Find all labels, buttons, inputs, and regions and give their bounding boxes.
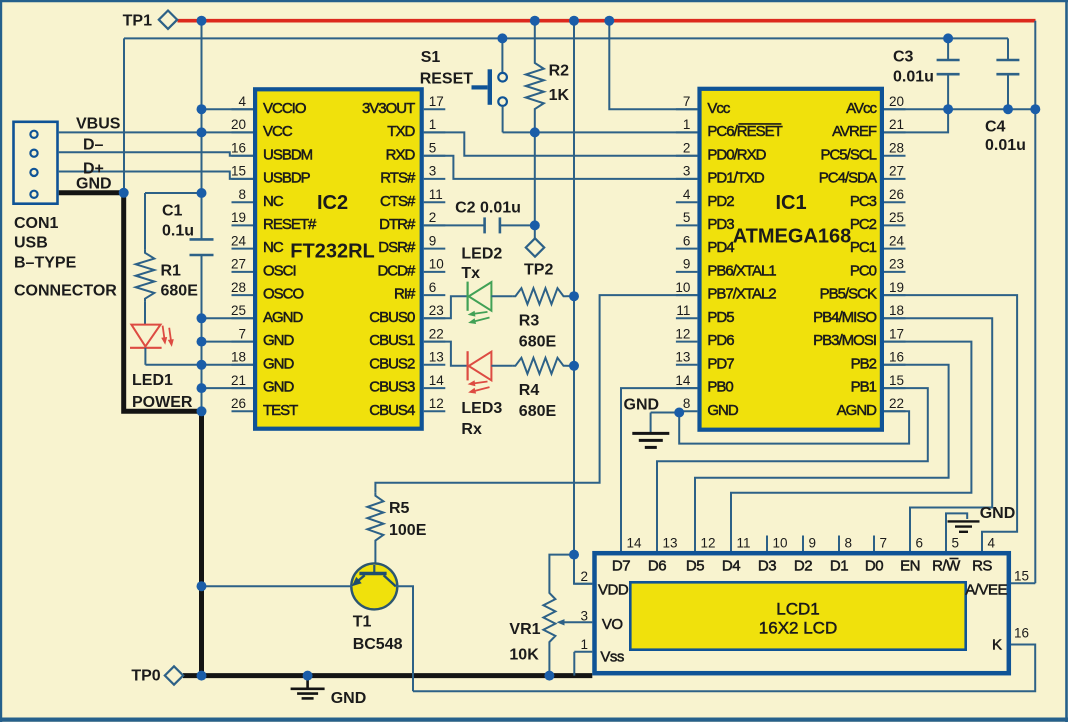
svg-text:D7: D7: [612, 558, 630, 575]
svg-text:TP2: TP2: [524, 262, 553, 279]
svg-text:25: 25: [231, 303, 246, 318]
svg-text:22: 22: [429, 326, 444, 341]
svg-text:R2: R2: [549, 63, 570, 80]
junction T1 emitter/gnd: [197, 581, 207, 591]
svg-text:ATMEGA168: ATMEGA168: [733, 226, 852, 248]
wire gnd side below C1: [201, 255, 203, 411]
svg-text:CBUS3: CBUS3: [369, 379, 415, 396]
wire R1 tap: [145, 192, 202, 194]
LED3 triangle: [469, 352, 492, 381]
resistor R5 100E: [367, 493, 383, 544]
svg-text:23: 23: [889, 257, 904, 272]
svg-text:10: 10: [773, 536, 788, 551]
test point TP2 diamond: [526, 238, 544, 256]
svg-text:2: 2: [580, 569, 588, 584]
wire CBUS1 to LED3: [424, 342, 468, 366]
svg-text:21: 21: [231, 373, 246, 388]
IC2 left pin 20 VCC: [232, 131, 254, 133]
svg-text:100E: 100E: [389, 522, 427, 539]
svg-text:14: 14: [675, 373, 691, 388]
svg-text:OSCO: OSCO: [263, 286, 304, 303]
junction GND7: [197, 337, 207, 347]
svg-text:6: 6: [683, 233, 691, 248]
svg-text:1: 1: [580, 637, 588, 652]
svg-text:7: 7: [880, 536, 888, 551]
IC2 right pin 2 DTR#: [424, 224, 446, 226]
svg-text:11: 11: [676, 303, 690, 318]
IC2 right pin 14 CBUS3: [424, 387, 446, 389]
LED3 arrows: [473, 382, 488, 384]
wire VCC rail x201: [201, 21, 203, 240]
svg-text:DSR#: DSR#: [378, 239, 416, 256]
svg-text:PB6/XTAL1: PB6/XTAL1: [707, 263, 776, 280]
potentiometer VR1 10K: [549, 555, 574, 590]
svg-text:680E: 680E: [161, 283, 199, 300]
junction x574/red: [569, 16, 579, 26]
svg-text:Vss: Vss: [600, 649, 624, 666]
svg-text:USBDP: USBDP: [263, 170, 311, 187]
IC2 right pin 6 RI#: [424, 294, 446, 296]
svg-text:R4: R4: [519, 382, 540, 399]
svg-text:PD5: PD5: [707, 309, 734, 326]
junction GND21: [197, 383, 207, 393]
svg-text:6: 6: [429, 280, 437, 295]
IC1 right pin 22 AGND: [884, 410, 906, 412]
junction C3/gnd-top: [943, 33, 953, 43]
IC2 right pin 3 RTS#: [424, 178, 446, 180]
svg-text:GND: GND: [707, 402, 739, 419]
wire PB5/SCK to LCD RS: [884, 295, 1017, 551]
IC2 left pin 15 USBDP: [232, 178, 254, 180]
svg-text:GND: GND: [980, 505, 1016, 522]
wire gnd rail to IC2 row11: [202, 364, 254, 366]
svg-text:T1: T1: [353, 613, 372, 630]
svg-text:13: 13: [429, 350, 444, 365]
svg-text:17: 17: [889, 326, 904, 341]
svg-text:D0: D0: [865, 558, 883, 575]
svg-text:27: 27: [231, 257, 246, 272]
LCD pin 9 D2: [802, 536, 804, 552]
IC2 right pin 11 CTS#: [424, 201, 446, 203]
svg-text:14: 14: [429, 373, 445, 388]
svg-text:PD3: PD3: [707, 216, 734, 233]
switch S1 RESET: [501, 38, 503, 72]
junction x609/red: [604, 16, 614, 26]
wire LED1 to gnd row: [144, 348, 146, 365]
svg-text:PC1: PC1: [850, 239, 877, 256]
resistor R3 680E: [512, 288, 566, 304]
test point TP1 diamond: [159, 11, 177, 29]
svg-text:AVREF: AVREF: [832, 123, 877, 140]
wire to IC2 pin4 VCCIO: [202, 108, 254, 110]
wire PB7/XTAL2 to R5: [375, 295, 697, 493]
LCD pin 14 D7: [620, 536, 622, 552]
LCD pin 2 VDD: [574, 583, 592, 585]
svg-text:15: 15: [1014, 569, 1029, 584]
junction VDD/VR1: [569, 550, 579, 560]
wire GND thick black bottom TP0 line: [183, 673, 592, 678]
svg-text:11: 11: [429, 187, 443, 202]
svg-text:D4: D4: [722, 558, 740, 575]
svg-text:3: 3: [429, 164, 437, 179]
svg-text:PB7/XTAL2: PB7/XTAL2: [707, 286, 776, 303]
IC2 right pin 13 CBUS2: [424, 364, 446, 366]
svg-text:CBUS2: CBUS2: [369, 355, 415, 372]
wire to TP2: [534, 225, 536, 238]
svg-text:C3: C3: [893, 49, 914, 66]
CON1 pin circle 4: [30, 191, 37, 198]
IC2 right pin 12 CBUS4: [424, 410, 446, 412]
LCD pin 11 D4: [730, 536, 732, 552]
svg-text:11: 11: [737, 536, 751, 551]
LCD pin 12 D5: [694, 536, 696, 552]
svg-text:PB1: PB1: [851, 379, 877, 396]
svg-text:D5: D5: [686, 558, 704, 575]
wire GND thick black vertical x201: [199, 411, 204, 675]
svg-text:15: 15: [889, 373, 904, 388]
svg-text:PD7: PD7: [707, 355, 734, 372]
svg-text:10K: 10K: [509, 647, 539, 664]
svg-text:19: 19: [889, 280, 904, 295]
svg-text:28: 28: [231, 280, 246, 295]
junction S1/gnd-top: [497, 33, 507, 43]
svg-text:21: 21: [889, 117, 904, 132]
junction gnd bottom left: [197, 671, 207, 681]
IC1 left pin 11 PD5: [676, 317, 698, 319]
svg-text:4: 4: [238, 94, 246, 109]
wire gnd-top horizontal y38: [124, 37, 1008, 39]
svg-text:PB4/MISO: PB4/MISO: [813, 309, 876, 326]
junction reset node: [530, 127, 540, 137]
svg-text:8: 8: [238, 187, 246, 202]
wire R2 bottom to C2 node: [534, 112, 536, 225]
svg-text:1: 1: [429, 117, 437, 132]
wire gnd rail to IC2 row10: [202, 341, 254, 343]
resistor R1 680E: [144, 193, 146, 250]
svg-text:C2 0.01u: C2 0.01u: [455, 200, 521, 217]
svg-text:5: 5: [429, 141, 437, 156]
svg-text:680E: 680E: [519, 333, 557, 350]
svg-text:10: 10: [675, 280, 690, 295]
svg-text:PD2: PD2: [707, 193, 734, 210]
svg-text:18: 18: [889, 303, 904, 318]
ground LCD pin5 R/W: [946, 513, 967, 551]
svg-text:Vcc: Vcc: [707, 100, 731, 117]
svg-text:A/VEE: A/VEE: [965, 582, 1007, 599]
wire D+ to pin15: [59, 172, 253, 179]
svg-text:19: 19: [231, 210, 246, 225]
IC2 right pin 1 TXD: [424, 131, 446, 133]
IC2 left pin 24 NC: [232, 248, 254, 250]
wire IC2 RXD to IC1 PD1/TXD: [424, 156, 698, 179]
resistor R4 680E: [512, 358, 566, 374]
wire AVcc line: [884, 108, 1035, 110]
svg-text:R3: R3: [519, 313, 540, 330]
svg-text:18: 18: [231, 350, 246, 365]
svg-text:NC: NC: [263, 193, 284, 210]
svg-text:16: 16: [889, 350, 904, 365]
svg-text:PD1/TXD: PD1/TXD: [707, 170, 765, 187]
IC2 right pin 10 DCD#: [424, 271, 446, 273]
wire gnd-top left drop x124: [123, 38, 125, 192]
svg-text:LED1: LED1: [132, 372, 173, 389]
IC1 left pin 12 PD6: [676, 341, 698, 343]
IC2 left pin 27 OSCI: [232, 271, 254, 273]
LCD pin 6 EN: [909, 536, 911, 552]
IC2 right pin 17 3V3OUT: [424, 108, 446, 110]
op-amp U1: IC2 FT232RL body: [255, 89, 422, 428]
IC2 left pin 19 RESET#: [232, 224, 254, 226]
svg-text:GND: GND: [76, 176, 112, 193]
IC1 left pin 14 PB0: [676, 387, 698, 389]
junction AVcc/right rail: [1030, 104, 1040, 114]
svg-text:CBUS0: CBUS0: [369, 309, 415, 326]
wire S1 to reset node: [502, 106, 504, 132]
svg-text:16: 16: [1014, 626, 1029, 641]
svg-text:GND: GND: [263, 355, 295, 372]
IC2 left pin 26 TEST: [232, 410, 254, 412]
svg-text:VDD: VDD: [598, 582, 629, 599]
wire LED3 anode to R4: [491, 365, 512, 367]
IC2 left pin 28 OSCO: [232, 294, 254, 296]
svg-text:10: 10: [429, 257, 444, 272]
capacitor C2 0.01u: [424, 224, 485, 226]
svg-text:DCD#: DCD#: [377, 263, 415, 280]
svg-text:CTS#: CTS#: [380, 193, 416, 210]
svg-text:8: 8: [683, 396, 691, 411]
wire PB2 to LCD D5: [695, 365, 949, 551]
svg-text:CBUS4: CBUS4: [369, 402, 415, 419]
LCD pin 8 D1: [838, 536, 840, 552]
svg-text:17: 17: [429, 94, 444, 109]
svg-text:DTR#: DTR#: [379, 216, 416, 233]
svg-text:9: 9: [429, 233, 437, 248]
svg-text:3: 3: [580, 608, 588, 623]
display LCD1 16X2 body: [595, 553, 1009, 673]
LCD pin 7 D0: [873, 536, 875, 552]
svg-text:POWER: POWER: [132, 394, 193, 411]
IC2 left pin 4 VCCIO: [232, 108, 254, 110]
IC2 left pin 25 AGND: [232, 317, 254, 319]
junction C4/AVcc: [1003, 104, 1013, 114]
IC2 left pin 21 GND: [232, 387, 254, 389]
junction rail/red: [197, 16, 207, 26]
svg-text:AGND: AGND: [263, 309, 304, 326]
svg-text:8: 8: [845, 536, 853, 551]
wire PB0 to LCD D7: [621, 388, 697, 551]
LCD pin 1 Vss: [574, 651, 592, 653]
svg-text:RXD: RXD: [386, 146, 416, 163]
svg-text:D6: D6: [648, 558, 666, 575]
wire reset node to IC1 PC6: [535, 131, 698, 133]
IC1 left pin 8 GND: [676, 410, 698, 412]
svg-text:15: 15: [231, 164, 246, 179]
LCD pin 5 R/W: [945, 536, 947, 552]
CON1 pin circle 3: [30, 169, 37, 176]
ground: [948, 521, 980, 531]
svg-text:PD4: PD4: [707, 239, 734, 256]
wire gnd rail to IC2 row12: [202, 387, 254, 389]
CON1 pin circle 1: [30, 131, 37, 138]
svg-text:VCC: VCC: [263, 123, 293, 140]
IC2 right pin 23 CBUS0: [424, 317, 446, 319]
IC1 right pin 18 PB4/MISO: [884, 317, 906, 319]
ground stem TP0 line: [306, 676, 309, 688]
IC1 right pin 21 AVREF: [884, 131, 906, 133]
svg-text:RESET: RESET: [420, 70, 474, 87]
svg-text:0.01u: 0.01u: [985, 137, 1026, 154]
svg-text:23: 23: [429, 303, 444, 318]
svg-text:12: 12: [701, 536, 716, 551]
VR1 wiper arrow: [563, 621, 593, 623]
IC1 right pin 17 PB3/MOSI: [884, 341, 906, 343]
svg-text:1: 1: [683, 117, 691, 132]
LCD pin 13 D6: [656, 536, 658, 552]
svg-text:22: 22: [889, 396, 904, 411]
svg-text:D–: D–: [83, 137, 104, 154]
svg-text:12: 12: [675, 326, 690, 341]
junction R1 tap: [197, 188, 207, 198]
svg-text:RTS#: RTS#: [380, 170, 416, 187]
svg-text:20: 20: [889, 94, 904, 109]
LED2 cathode bar: [467, 282, 469, 311]
wire LED2 anode to R3: [491, 295, 512, 297]
svg-text:R/W: R/W: [932, 558, 961, 575]
resistor R2 1K: [534, 21, 536, 60]
IC2 right pin 5 RXD: [424, 155, 446, 157]
svg-text:4: 4: [683, 187, 691, 202]
svg-text:PB5/SCK: PB5/SCK: [820, 286, 877, 303]
junction R2/red: [530, 16, 540, 26]
svg-text:B–TYPE: B–TYPE: [14, 255, 77, 272]
wire T1 collector down: [396, 586, 413, 691]
svg-text:28: 28: [889, 141, 904, 156]
svg-text:LED2: LED2: [461, 246, 502, 263]
IC1 right pin 23 PC0: [884, 271, 906, 273]
svg-text:PC4/SDA: PC4/SDA: [819, 170, 877, 187]
wire D- to pin16: [59, 152, 253, 155]
svg-text:PC3: PC3: [850, 193, 877, 210]
svg-text:C1: C1: [162, 203, 183, 220]
connector CON1 USB: [14, 122, 58, 204]
svg-text:9: 9: [809, 536, 817, 551]
svg-text:5: 5: [683, 210, 691, 225]
svg-text:9: 9: [683, 257, 691, 272]
IC1 left pin 13 PD7: [676, 364, 698, 366]
transistor T1 BC548: [351, 563, 397, 609]
LCD pin 10 D3: [766, 536, 768, 552]
svg-text:RS: RS: [972, 558, 992, 575]
wire VBUS to pin20: [59, 131, 253, 133]
svg-text:24: 24: [889, 233, 905, 248]
junction VBUS: [197, 127, 207, 137]
svg-text:RI#: RI#: [394, 286, 416, 303]
IC2 left pin 8 NC: [232, 201, 254, 203]
svg-text:26: 26: [889, 187, 904, 202]
svg-text:PC6/RESET: PC6/RESET: [707, 123, 782, 140]
ground bottom: [291, 689, 325, 699]
IC1 left pin 9 PB6/XTAL1: [676, 271, 698, 273]
svg-text:16: 16: [231, 141, 246, 156]
IC1 right pin 27 PC4/SDA: [884, 178, 906, 180]
wire VCC drop x574: [573, 21, 575, 555]
wire T1 emitter to gnd: [202, 585, 353, 587]
svg-text:K: K: [992, 637, 1002, 654]
svg-text:PB2: PB2: [851, 355, 877, 372]
junction pin4: [197, 104, 207, 114]
svg-text:GND: GND: [624, 397, 660, 414]
svg-text:PB3/MOSI: PB3/MOSI: [813, 332, 876, 349]
wire LCD K to T1 collector: [413, 645, 1035, 692]
IC1 right pin 19 PB5/SCK: [884, 294, 906, 296]
test point TP0 diamond: [165, 666, 183, 684]
IC2 right pin 22 CBUS1: [424, 341, 446, 343]
svg-text:0.01u: 0.01u: [893, 69, 934, 86]
svg-text:16X2 LCD: 16X2 LCD: [759, 619, 837, 638]
wire IC2 TXD to IC1 PD0/RXD: [424, 132, 698, 155]
IC1 right pin 24 PC1: [884, 248, 906, 250]
svg-text:PC0: PC0: [850, 263, 877, 280]
svg-text:RESET#: RESET#: [263, 216, 317, 233]
IC2 left pin 7 GND: [232, 341, 254, 343]
svg-text:GND: GND: [263, 379, 295, 396]
svg-text:USBDM: USBDM: [263, 146, 313, 163]
svg-text:CON1: CON1: [14, 215, 59, 232]
wire AVREF riser: [884, 109, 948, 132]
svg-text:S1: S1: [421, 49, 441, 66]
wire CBUS0 to LED2: [424, 296, 468, 318]
LED1 arrows: [163, 326, 165, 340]
svg-text:TXD: TXD: [387, 123, 415, 140]
svg-text:20: 20: [231, 117, 246, 132]
wire VCC to IC1 Vcc pin7: [609, 21, 697, 110]
svg-text:VO: VO: [602, 616, 623, 633]
svg-text:12: 12: [429, 396, 444, 411]
wire right rail x1035 to LCD AVEE: [1034, 21, 1036, 584]
node VCC: red power rail: [178, 19, 1036, 23]
svg-text:R5: R5: [389, 500, 410, 517]
IC1 right pin 28 PC5/SCL: [884, 155, 906, 157]
svg-text:IC1: IC1: [775, 192, 806, 214]
svg-text:PD6: PD6: [707, 332, 734, 349]
svg-text:PB0: PB0: [707, 379, 733, 396]
svg-text:Rx: Rx: [461, 421, 482, 438]
IC1 left pin 6 PD4: [676, 248, 698, 250]
wire PB4/MISO to LCD EN: [884, 318, 992, 551]
svg-text:D2: D2: [794, 558, 812, 575]
T1 base bar: [359, 572, 386, 576]
IC1 left pin 2 PD0/RXD: [676, 155, 698, 157]
wire PB3/MOSI to LCD D4: [731, 342, 971, 551]
svg-text:BC548: BC548: [353, 636, 403, 653]
LED3 cathode bar: [467, 351, 469, 380]
junction usb gnd: [119, 188, 129, 198]
IC1 left pin 10 PB7/XTAL2: [676, 294, 698, 296]
svg-text:VR1: VR1: [509, 621, 540, 638]
svg-text:2: 2: [429, 210, 437, 225]
junction gnd symbol: [303, 671, 313, 681]
wire PB1 to LCD D6: [657, 388, 928, 551]
IC1 left pin 7 Vcc: [676, 108, 698, 110]
svg-text:VBUS: VBUS: [76, 116, 121, 133]
svg-text:680E: 680E: [519, 403, 557, 420]
svg-text:C4: C4: [985, 119, 1006, 136]
svg-text:1K: 1K: [549, 87, 570, 104]
junction TEST: [197, 406, 207, 416]
svg-text:CBUS1: CBUS1: [369, 332, 415, 349]
svg-text:D3: D3: [758, 558, 776, 575]
T1 emitter slant+arrow: [358, 575, 365, 581]
